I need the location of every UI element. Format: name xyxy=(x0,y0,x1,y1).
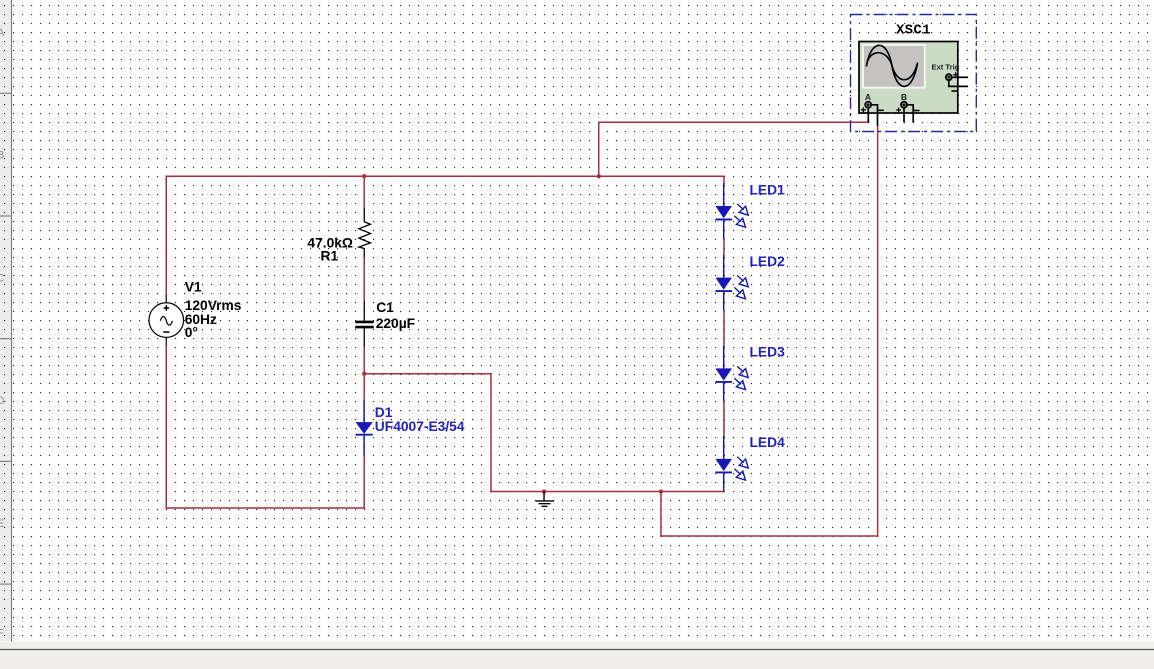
XSC1 screen white frame xyxy=(862,44,926,89)
LED1 triangle xyxy=(715,206,732,218)
wire between LED2 and LED3 xyxy=(723,311,725,346)
wire mid horizontal to right xyxy=(364,373,491,375)
LED2 arrow 2 xyxy=(734,287,745,298)
LED2 top pin xyxy=(723,255,725,278)
LED3 arrow 2 xyxy=(734,378,745,389)
zone tick 4 xyxy=(0,460,12,462)
LED2 cathode bar xyxy=(715,290,732,292)
scrollbar band above separator xyxy=(0,642,1154,650)
ground bar 2 xyxy=(539,503,551,505)
V1 plus sign xyxy=(164,305,170,311)
D1 bottom pin xyxy=(363,436,365,455)
wire right vertical to scope A- xyxy=(877,126,879,536)
wire bottom-left horizontal xyxy=(166,507,364,509)
zone tick 5 xyxy=(0,583,12,585)
svg-text:E: E xyxy=(0,518,4,530)
XSC1 screen gray xyxy=(864,46,924,87)
XSC1 ext trig minus xyxy=(951,90,957,92)
LED2 bottom pin xyxy=(723,292,725,311)
ground bar 3 xyxy=(542,505,548,507)
svg-text:D: D xyxy=(0,395,5,407)
XSC1 channel B minus xyxy=(914,110,920,112)
wire junction to R1 top pin xyxy=(363,176,365,208)
LED1 top pin xyxy=(723,183,725,206)
wire vertical drop to ground rail xyxy=(490,374,492,492)
status bar xyxy=(0,650,1154,669)
junction node below C1 xyxy=(362,372,366,376)
svg-text:120Vrms: 120Vrms xyxy=(185,298,242,313)
XSC1 ext trig plus xyxy=(953,72,958,77)
V1 circle xyxy=(149,303,184,338)
wire scope branch horizontal to A+ xyxy=(599,121,869,123)
sheet border line xyxy=(11,0,13,642)
XSC1 channel B terminal xyxy=(901,102,907,108)
XSC1 channel A minus pin xyxy=(871,105,878,126)
wire up to D1 bottom pin xyxy=(363,455,365,508)
XSC1 channel A plus pin xyxy=(867,108,869,122)
svg-text:0°: 0° xyxy=(185,325,198,340)
V1 minus sign xyxy=(163,331,169,333)
R1 body zigzag and pins xyxy=(359,208,371,257)
svg-text:D1: D1 xyxy=(375,405,393,420)
svg-text:A: A xyxy=(865,92,871,102)
XSC1 channel A minus xyxy=(878,109,884,111)
wire left vertical to V1 top pin xyxy=(165,176,167,295)
wire LED column top xyxy=(723,176,725,183)
wire ground rail horizontal xyxy=(491,491,724,493)
C1 bottom plate xyxy=(355,326,374,329)
svg-text:LED1: LED1 xyxy=(750,182,786,197)
junction node at R1 top xyxy=(362,174,366,178)
D1 top pin xyxy=(363,401,365,422)
zone tick 3 xyxy=(0,338,12,340)
svg-text:B: B xyxy=(901,92,907,102)
D1 cathode bar xyxy=(356,434,373,436)
svg-text:LED3: LED3 xyxy=(750,345,786,360)
svg-text:C: C xyxy=(0,272,5,284)
XSC1 channel A terminal xyxy=(865,102,871,108)
LED4 triangle xyxy=(715,459,732,471)
svg-text:A: A xyxy=(0,27,5,39)
V1 sine symbol xyxy=(160,317,172,326)
LED3 triangle xyxy=(715,368,732,380)
zone tick 2 xyxy=(0,215,12,217)
XSC1 ext trig pin top xyxy=(952,76,968,78)
wire scope branch vertical xyxy=(598,122,600,176)
junction node at scope branch xyxy=(597,174,601,178)
V1 bottom pin xyxy=(165,337,167,345)
wire between LED1 and LED2 xyxy=(723,239,725,255)
XSC1 ext trig terminal xyxy=(946,74,952,80)
LED3 arrow 1 xyxy=(737,366,748,377)
XSC1 ext trig pin bottom xyxy=(949,81,968,87)
C1 top pin xyxy=(363,301,365,320)
ground stub xyxy=(543,492,545,501)
svg-text:XSC1: XSC1 xyxy=(896,24,931,39)
wire R1 bottom to C1 top pin xyxy=(363,257,365,302)
wire mid junction to D1 top xyxy=(363,374,365,401)
C1 top plate xyxy=(355,321,374,324)
svg-text:LED4: LED4 xyxy=(750,435,786,450)
svg-text:F: F xyxy=(0,628,4,640)
svg-text:Ext Trig: Ext Trig xyxy=(932,63,960,72)
svg-text:R1: R1 xyxy=(321,249,339,264)
LED1 arrow 2 xyxy=(734,216,745,227)
XSC1 channel B plus xyxy=(896,108,901,113)
D1 triangle xyxy=(356,422,373,434)
LED3 top pin xyxy=(723,345,725,368)
XSC1 selection dashed box xyxy=(851,15,977,132)
status bar separator xyxy=(0,649,1154,651)
svg-text:V1: V1 xyxy=(185,279,202,294)
svg-text:UF4007-E3/54: UF4007-E3/54 xyxy=(375,419,465,434)
svg-text:C1: C1 xyxy=(376,300,394,315)
sheet zone strip background (left) xyxy=(0,0,11,641)
LED2 triangle xyxy=(715,278,732,290)
LED4 cathode bar xyxy=(715,471,732,473)
LED2 arrow 1 xyxy=(737,275,748,286)
V1 top pin xyxy=(165,295,167,303)
wire bottom-right horizontal xyxy=(661,535,878,537)
LED4 bottom pin xyxy=(723,473,725,491)
XSC1 channel B minus pin xyxy=(907,105,914,123)
XSC1 channel A plus xyxy=(861,107,866,112)
XSC1 channel B plus pin xyxy=(903,108,905,123)
wire branch down from ground rail xyxy=(660,492,662,536)
junction node at bottom branch xyxy=(659,489,663,493)
LED1 arrow 1 xyxy=(737,204,748,215)
LED4 top pin xyxy=(723,436,725,459)
LED4 arrow 2 xyxy=(734,469,745,480)
zone tick 1 xyxy=(0,92,12,94)
wire V1 bottom to bottom-left corner xyxy=(165,345,167,508)
LED1 cathode bar xyxy=(715,219,732,221)
LED1 bottom pin xyxy=(723,221,725,240)
C1 bottom pin xyxy=(363,328,365,346)
XSC1 instrument body xyxy=(859,42,958,114)
LED3 bottom pin xyxy=(723,383,725,402)
wire top rail xyxy=(166,175,724,177)
svg-text:B: B xyxy=(0,150,4,162)
XSC1 screen sine wave small xyxy=(867,53,917,80)
svg-text:LED2: LED2 xyxy=(750,254,786,269)
LED3 cathode bar xyxy=(715,381,732,383)
junction node at ground xyxy=(542,489,546,493)
svg-text:220µF: 220µF xyxy=(376,316,415,331)
XSC1 screen sine wave big xyxy=(866,45,917,86)
ground bar 1 xyxy=(535,500,554,502)
wire between LED3 and LED4 xyxy=(723,402,725,437)
wire C1 bottom to mid junction xyxy=(363,347,365,374)
LED4 arrow 1 xyxy=(737,457,748,468)
